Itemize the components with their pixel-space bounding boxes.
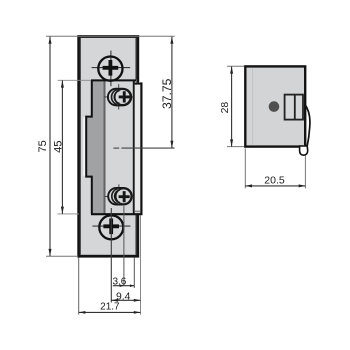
side body rect <box>245 66 305 146</box>
dim 20.5 line <box>245 185 305 187</box>
svg-text:20.5: 20.5 <box>264 175 285 187</box>
dim 9.4 line <box>111 299 140 301</box>
top phillips cross <box>103 60 119 76</box>
latch centerline <box>113 147 119 149</box>
top oval crescent arcs <box>111 89 117 104</box>
svg-text:37.75: 37.75 <box>160 78 174 109</box>
body strip protruding right <box>135 83 141 214</box>
bottom-left extension line <box>46 255 78 257</box>
latch keeper face <box>106 80 134 214</box>
top oval screw head circle <box>115 89 131 105</box>
dim 45 extension lines <box>58 79 92 81</box>
bottom oval screw head circle <box>116 189 132 205</box>
top oval phillips cross <box>119 91 130 102</box>
latch block divider <box>294 95 296 120</box>
svg-text:45: 45 <box>52 140 64 152</box>
svg-text:21.7: 21.7 <box>100 302 120 313</box>
bottom dims extension lines <box>78 258 80 315</box>
faint faceplate line <box>252 68 254 145</box>
dim 28 extension lines <box>227 65 244 67</box>
bottom oval screw ticks <box>118 184 120 187</box>
cutout top boundary line <box>91 79 136 81</box>
top phillips screw circle <box>98 57 122 81</box>
bottom screw crosshair <box>92 225 130 227</box>
dim 3.6 line <box>113 285 135 287</box>
top screw crosshair <box>110 51 112 87</box>
dim 37.75 line <box>171 37 173 148</box>
latch face right edge <box>133 80 135 214</box>
dim 75 arrows <box>49 37 52 257</box>
bottom phillips screw circle <box>99 215 123 239</box>
latch cavity dark strip (stepped) <box>86 80 104 214</box>
bottom phillips cross <box>103 219 119 235</box>
dim 21.7 line <box>79 311 141 313</box>
lip foot <box>300 146 308 155</box>
bottom oval crescent arcs <box>112 189 118 204</box>
svg-text:75: 75 <box>37 140 49 152</box>
dim 28 line <box>231 66 233 146</box>
bottom oval phillips cross <box>119 191 130 202</box>
dim 20.5 extension lines <box>244 148 246 188</box>
body strip bottom shadow <box>135 210 141 212</box>
faceplate outline <box>79 37 138 257</box>
dim 37.75 arrows <box>170 37 173 148</box>
dim 45 arrows <box>61 80 64 213</box>
highlight strip left of notch <box>83 117 85 176</box>
body strip right edge <box>140 82 142 214</box>
latch block <box>285 95 303 120</box>
top oval screw ticks <box>118 84 120 87</box>
bottom oval slot outline <box>108 188 132 205</box>
top extension line <box>46 35 175 37</box>
center pin dot <box>269 101 280 112</box>
dim 45 line <box>61 80 63 213</box>
top oval slot outline <box>108 89 131 106</box>
dim 75 line <box>49 37 51 257</box>
strip left stepped edge line <box>86 80 92 214</box>
strip right boundary line <box>104 80 106 214</box>
cutout bottom boundary line <box>91 213 143 215</box>
svg-text:3.6: 3.6 <box>112 276 126 287</box>
lip curve <box>305 104 310 146</box>
body strip top edge <box>135 83 143 85</box>
svg-text:28: 28 <box>220 102 231 114</box>
